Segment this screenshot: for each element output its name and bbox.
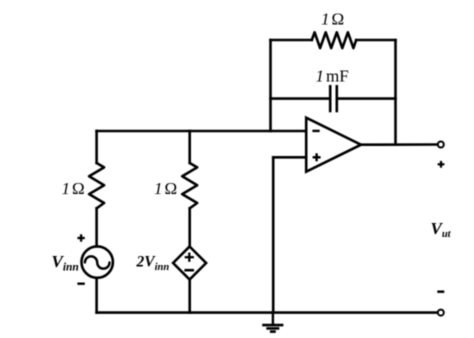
svg-text:2Vinn: 2Vinn bbox=[136, 254, 170, 274]
wire capacitor left segment bbox=[271, 97, 331, 100]
wire bottom rail bbox=[97, 311, 438, 314]
wire top feedback right segment bbox=[356, 39, 395, 42]
svg-text:Vinn: Vinn bbox=[52, 252, 79, 274]
wire middle branch lower bbox=[188, 280, 191, 313]
wire non-inverting input stub bbox=[273, 156, 306, 159]
svg-text:1Ω: 1Ω bbox=[154, 179, 177, 198]
output terminal plus sign bbox=[438, 161, 445, 168]
capacitor C1 1mF plates bbox=[329, 86, 332, 111]
wire left branch to source bbox=[95, 208, 98, 246]
svg-text:1Ω: 1Ω bbox=[62, 179, 85, 198]
dependent source internal minus bbox=[184, 269, 194, 272]
op-amp plus sign bbox=[313, 153, 321, 161]
source Vinn sine symbol bbox=[85, 256, 110, 268]
wire left branch lower bbox=[95, 278, 98, 313]
terminal - output circle bbox=[438, 310, 444, 316]
svg-text:1mF: 1mF bbox=[316, 67, 349, 86]
ground symbol bars bbox=[262, 325, 283, 332]
wire feedback right vertical bbox=[394, 40, 397, 145]
wire top feedback left segment bbox=[271, 39, 312, 42]
op-amp U1 triangle bbox=[306, 118, 361, 172]
ground stub bbox=[272, 313, 274, 325]
wire ground vertical bbox=[272, 157, 275, 312]
svg-text:1Ω: 1Ω bbox=[321, 10, 344, 29]
op-amp minus sign bbox=[312, 130, 319, 132]
terminal + output circle bbox=[438, 142, 444, 148]
wire output bbox=[361, 143, 438, 146]
wire middle branch upper bbox=[188, 131, 191, 163]
resistor R2 1ohm left zigzag bbox=[89, 163, 104, 208]
wire inverting input (node A) bbox=[97, 130, 307, 133]
dependent source 2Vinn diamond bbox=[173, 247, 206, 280]
dependent source internal plus bbox=[185, 253, 194, 262]
resistor R1 1ohm feedback zigzag bbox=[312, 32, 356, 48]
svg-text:Vut: Vut bbox=[431, 219, 452, 240]
wire middle branch to dependent source bbox=[188, 208, 191, 246]
polarity plus of Vinn bbox=[77, 234, 84, 241]
polarity minus of Vinn bbox=[77, 283, 84, 285]
resistor R3 1ohm middle zigzag bbox=[182, 163, 197, 208]
wire left branch upper bbox=[95, 131, 98, 163]
source Vinn circle bbox=[82, 246, 113, 277]
wire capacitor right segment bbox=[337, 97, 396, 100]
output terminal minus sign bbox=[437, 290, 444, 293]
wire feedback left vertical bbox=[269, 40, 272, 131]
